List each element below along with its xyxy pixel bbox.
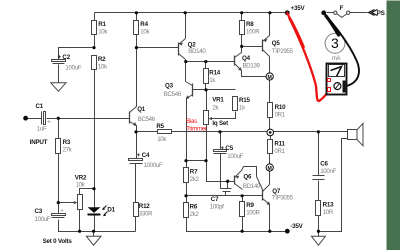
capacitor C2 bottom plate (53, 63, 65, 65)
svg-text:R2: R2 (98, 56, 106, 63)
node Q6 base C7 (226, 180, 229, 183)
resistor R13 (316, 201, 321, 216)
resistor R9 (240, 202, 245, 217)
potentiometer VR2 (78, 195, 83, 210)
svg-text:0R1: 0R1 (275, 111, 286, 118)
svg-text:BD140: BD140 (188, 48, 206, 55)
svg-text:100pf: 100pf (210, 203, 224, 210)
potentiometer VR1 (204, 111, 209, 125)
svg-text:2k2: 2k2 (190, 176, 200, 183)
svg-text:C1: C1 (36, 103, 44, 110)
svg-text:VR1: VR1 (212, 96, 224, 103)
wire Q2 emitter to rail (185, 13, 187, 39)
svg-text:1k: 1k (209, 77, 216, 84)
svg-text:mA: mA (332, 55, 342, 62)
output terminal (267, 129, 274, 136)
wire node to Q2 base (137, 47, 179, 49)
wire C7 top stub from Q6 base wire (227, 182, 229, 189)
svg-text:2k: 2k (212, 104, 219, 111)
wire R7 top (186, 161, 188, 168)
capacitor C5 bottom plate (214, 153, 227, 155)
svg-text:+ C4: + C4 (137, 152, 150, 159)
wire R2 bottom long drop to VR2 node (94, 70, 96, 189)
resistor R3 (56, 139, 61, 154)
wire R12 bottom (135, 217, 137, 232)
svg-text:TIP2955: TIP2955 (272, 48, 294, 55)
node C6 bus (317, 130, 320, 133)
capacitor C7 plates (221, 189, 232, 192)
node Q3e link (184, 159, 187, 162)
node VR2 top (92, 187, 95, 190)
transistor Q1 (130, 107, 137, 132)
node rail Q5e (268, 11, 271, 14)
black probe wire (324, 13, 359, 86)
svg-text:1uF: 1uF (37, 125, 47, 132)
svg-text:R10: R10 (275, 104, 287, 111)
node R7 R6 (184, 194, 187, 197)
node VR1 link (204, 159, 207, 162)
svg-text:330R: 330R (139, 210, 153, 217)
diode D1 (88, 206, 108, 217)
svg-text:R14: R14 (209, 70, 221, 77)
capacitor C5 plates (214, 150, 227, 152)
svg-text:100R: 100R (246, 210, 260, 217)
svg-text:Q5: Q5 (272, 40, 281, 47)
node R8 Q4c Q5b (240, 45, 243, 48)
wire Q3 base to R15 top (193, 89, 236, 91)
wire output bus left of R5 (137, 131, 158, 133)
svg-text:Set 0 Volts: Set 0 Volts (43, 238, 73, 245)
wire speaker return rail (319, 139, 348, 232)
ammeter point M2 (266, 164, 273, 172)
wire wiper node to VR2 arrow (59, 202, 75, 204)
svg-text:1k: 1k (239, 104, 246, 111)
wire Q2 collector node (185, 60, 187, 62)
wire output bus R5 to terminal (172, 131, 268, 133)
node R4 Q2b (135, 46, 138, 49)
wire R4 bottom to Q1 collector run (136, 35, 138, 107)
wire R6 R7 node to Q7 base (187, 195, 263, 197)
wire C5 top (220, 132, 222, 150)
resistor R2 (92, 56, 97, 70)
wire R14 bottom to Q3 base node (205, 84, 207, 90)
fuse F (334, 11, 350, 17)
resistor R12 (134, 203, 139, 217)
node R3 VR2 wiper (57, 201, 60, 204)
resistor R11 (268, 140, 273, 154)
wire R1 bottom to node (94, 35, 96, 48)
wire fuse to PS chevron (350, 12, 368, 14)
svg-text:Bias: Bias (186, 118, 197, 125)
node rail R4 (135, 11, 138, 14)
wire R1 top drop (94, 13, 96, 21)
wire VR2 bottom (79, 210, 81, 232)
wire R6 bottom to -35V rail (187, 218, 288, 232)
node C1 R3 (57, 117, 60, 120)
ammeter point M1 (266, 73, 273, 81)
multimeter (327, 64, 347, 95)
ground under C2 (51, 83, 66, 92)
capacitor C3 plates (52, 214, 66, 216)
svg-text:10k: 10k (140, 28, 150, 35)
svg-text:1000uF: 1000uF (144, 162, 163, 169)
svg-text:VR2: VR2 (75, 174, 87, 181)
node R13 rail (317, 230, 320, 233)
wire D1 cathode to rail (94, 216, 96, 232)
svg-text:100uF: 100uF (35, 216, 51, 223)
node VR2 bottom (78, 230, 81, 233)
green sidebar (387, 1, 400, 250)
terminal input (23, 116, 28, 121)
VR2 wiper arrow (74, 201, 77, 204)
resistor R1 (92, 21, 97, 35)
svg-text:+ C2: + C2 (58, 54, 71, 61)
ground signal rail (86, 236, 101, 245)
wire R7 bottom to R6 node (186, 183, 188, 203)
wire VR2 node to D1 anode (94, 189, 96, 208)
svg-text:3: 3 (331, 35, 339, 51)
wire VR2 top to R2 drop (80, 189, 95, 195)
wire output terminal to R11 (270, 136, 272, 140)
svg-text:R1: R1 (98, 21, 106, 28)
svg-text:Q4: Q4 (242, 55, 251, 62)
capacitor C6 plates (313, 176, 325, 180)
svg-text:10k: 10k (76, 182, 86, 189)
wire ground stub below rail (93, 232, 95, 237)
capacitor C1 plate right (44, 112, 46, 125)
node Q3b R14 VR1 (204, 88, 207, 91)
step circle 3 (325, 33, 345, 53)
svg-text:10R: 10R (323, 209, 334, 216)
wire Q4 emitter run to ammeter M1 (242, 71, 267, 77)
node Q2c bus (184, 60, 187, 63)
svg-text:10k: 10k (98, 28, 108, 35)
transistor Q2 (179, 39, 186, 60)
wire R14 top (205, 62, 207, 69)
node R9 rail (241, 230, 244, 233)
node R14 top (204, 60, 207, 63)
resistor R8 (240, 21, 245, 35)
svg-text:BD140: BD140 (243, 183, 261, 190)
wire Q5 collector to ammeter M1 (269, 57, 271, 74)
svg-text:+: + (47, 118, 51, 125)
wire Q3 collector drop to Q2 collector node (185, 62, 187, 82)
svg-text:10k: 10k (98, 64, 108, 71)
wire R11 to M2 (269, 154, 271, 165)
svg-text:R3: R3 (63, 139, 71, 146)
wire output bus terminal to speaker (274, 131, 348, 133)
svg-text:C6: C6 (320, 161, 328, 168)
transistor Q3 (186, 82, 193, 100)
wire wiper node to C3 (58, 203, 60, 214)
capacitor C1 plate left (41, 112, 43, 125)
wire R8 top (241, 13, 243, 21)
capacitor C4 plates (129, 159, 143, 161)
wire C3 bottom to signal ground rail (59, 220, 136, 232)
resistor R4 (134, 21, 139, 35)
wire Q7 emitter to rail (269, 205, 271, 232)
transistor Q4 (235, 47, 243, 71)
wire C6 bottom to R13 (318, 181, 320, 201)
wire R4 top (136, 13, 138, 21)
capacitor C4 bottom plate (130, 163, 143, 165)
transistor Q6 (235, 167, 263, 190)
svg-text:R4: R4 (140, 21, 148, 28)
svg-text:2k2: 2k2 (190, 211, 200, 218)
svg-text:10k: 10k (157, 136, 167, 143)
speaker LS1 (348, 130, 358, 140)
wire node to Q5 base (242, 46, 263, 48)
wire bus Q2 collector to Q4 base (186, 61, 235, 63)
resistor R5 (158, 130, 172, 134)
wire node to C2 top (59, 48, 95, 60)
wire M2 to Q7 collector (269, 172, 271, 185)
red probe wire (287, 13, 328, 101)
svg-text:Q3: Q3 (165, 83, 174, 90)
wire feed dot to fuse (327, 12, 334, 14)
wire C2 bottom to ground (58, 65, 60, 83)
wire input to C1 (28, 118, 42, 120)
wire C1 to Q1 base (47, 118, 130, 120)
node rail R8 (240, 11, 243, 14)
svg-text:TIP3055: TIP3055 (272, 195, 294, 202)
resistor R7 (184, 168, 189, 183)
capacitor C2 plates (52, 60, 66, 62)
wire VR1 top (206, 90, 208, 111)
node Q6c R9 Q7b (241, 194, 244, 197)
wire R9 bottom (242, 217, 244, 232)
wire C7 bottom stub (225, 192, 227, 196)
VR1 wiper arrow (209, 117, 212, 120)
svg-text:Iq Set: Iq Set (212, 120, 228, 127)
wire R10 to output terminal (269, 118, 271, 130)
node rail Q2e (184, 11, 187, 14)
wire C4 bottom to R12 (135, 164, 137, 203)
svg-text:C7: C7 (211, 196, 219, 203)
svg-text:R7: R7 (190, 169, 198, 176)
svg-text:+ C5: + C5 (221, 145, 234, 152)
node R1 R2 C2 (92, 46, 95, 49)
wire +35V top rail (95, 12, 288, 14)
svg-text:R8: R8 (246, 21, 254, 28)
svg-text:100nF: 100nF (320, 168, 336, 175)
wire C6 top (318, 132, 320, 176)
wire C4 top from Q1 emitter node (136, 132, 138, 159)
svg-text:F: F (340, 5, 344, 12)
ground speaker (312, 236, 326, 245)
wire R15 bottom to VR1 wiper (211, 112, 236, 119)
svg-text:Trimmer: Trimmer (186, 126, 207, 133)
svg-text:R15: R15 (239, 97, 251, 104)
svg-text:100uF: 100uF (65, 65, 81, 72)
svg-text:R9: R9 (246, 202, 254, 209)
terminal +35V (285, 10, 290, 15)
svg-text:100R: 100R (246, 29, 260, 36)
resistor R6 (184, 203, 189, 218)
svg-text:BC546: BC546 (164, 91, 182, 98)
capacitor C3 bottom plate (52, 217, 65, 219)
svg-text:Q1: Q1 (137, 106, 146, 113)
svg-text:27k: 27k (63, 146, 73, 153)
node Q1e bus (134, 130, 137, 133)
svg-text:BC546: BC546 (138, 116, 156, 123)
wire R3 bottom to VR2 wiper node (58, 154, 60, 203)
svg-text:R6: R6 (190, 204, 198, 211)
wire R13 bottom to ground (318, 216, 320, 237)
svg-text:R13: R13 (323, 201, 335, 208)
svg-text:R12: R12 (139, 203, 151, 210)
svg-text:Q6: Q6 (243, 174, 252, 181)
svg-text:M: M (268, 75, 272, 81)
wire R8 bottom to Q4 collector node (241, 35, 243, 47)
transistor Q5 (263, 36, 270, 57)
wire R3 top (58, 119, 60, 139)
node ground rail (92, 230, 95, 233)
svg-text:M: M (268, 166, 272, 172)
wire VR1 bottom through output bus to Q6 base corner (207, 125, 235, 182)
resistor R15 (233, 97, 238, 111)
svg-text:C3: C3 (35, 208, 43, 215)
terminal fuse feed (321, 10, 326, 15)
svg-text:R11: R11 (274, 141, 285, 148)
PS chevron (369, 10, 378, 16)
resistor R10 (268, 103, 273, 118)
wire M1 to R10 (269, 81, 271, 103)
wire link between emitter drop and VR1 drop (187, 160, 207, 162)
terminal -35V (285, 229, 290, 234)
wire R9 top (242, 196, 244, 202)
svg-text:BD139: BD139 (243, 62, 261, 69)
wire C5 bottom down to C7 (220, 154, 222, 189)
svg-text:0R1: 0R1 (274, 148, 285, 155)
wire Q3 emitter long drop (186, 99, 188, 161)
svg-text:100uF: 100uF (227, 153, 243, 160)
transistor Q7 (263, 185, 271, 206)
node C5 bus (218, 130, 221, 133)
svg-text:+35V: +35V (291, 5, 306, 12)
svg-text:D1: D1 (107, 206, 115, 213)
wire Q5 emitter to rail (269, 13, 271, 36)
svg-text:INPUT: INPUT (30, 139, 48, 146)
resistor R14 (204, 69, 209, 84)
node Q7e rail (268, 230, 271, 233)
svg-text:-35V: -35V (290, 223, 303, 230)
svg-text:PS: PS (377, 10, 385, 17)
svg-text:R5: R5 (156, 123, 164, 130)
